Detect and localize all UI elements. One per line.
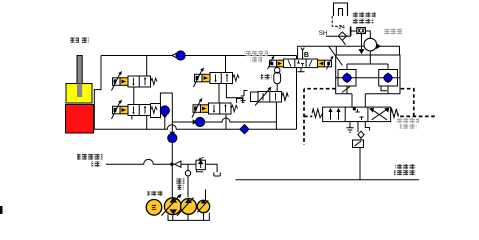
bold connector SH to dash (350, 27, 352, 37)
filter box on drain (360, 138, 362, 140)
BV centre blocked symbols (353, 108, 356, 111)
wire drain to line C (359, 148, 361, 181)
wire B port corner (297, 46, 299, 59)
label suction pipe (176, 178, 185, 183)
wire V3 col riser (225, 56, 227, 73)
pump P2 variable (177, 198, 196, 216)
manifold internal feed from motor (347, 55, 388, 70)
cylinder base red (66, 105, 94, 134)
wire V1 col riser (146, 56, 148, 77)
BV left square arrows (330, 110, 332, 120)
check block CB1 (338, 70, 356, 87)
wire brake release drop (361, 34, 363, 51)
manifold neck to big valve (352, 94, 365, 107)
BV right port L (365, 122, 369, 131)
node 1 blue on top wire (172, 51, 185, 60)
BV left spring (312, 109, 323, 118)
pump drain manifold (168, 213, 209, 221)
svg-text:SH: SH (319, 30, 328, 37)
wire pump3 stub (205, 190, 207, 201)
valve V3 proportional solenoid (194, 68, 240, 88)
V2 spring cage (151, 104, 161, 118)
BV right square cross arrows (372, 109, 388, 120)
dashed pilot left upper (304, 88, 336, 90)
wire RV center drain T (298, 68, 305, 72)
wire charge valve drop to line A (275, 102, 277, 129)
wire top supply (101, 55, 297, 57)
brake unit box XX (357, 28, 366, 34)
check valve diamond on SH line (338, 32, 346, 45)
pump P3 small (197, 200, 209, 213)
wire motor horizontal right and down to manifold (377, 46, 400, 55)
motor circle (364, 38, 377, 51)
cylinder piston rod (77, 56, 82, 98)
dashed pilot to brake (332, 16, 344, 26)
BV right spring (391, 109, 399, 118)
wire V3 drain L with tank (226, 84, 245, 103)
junction dot (170, 163, 173, 166)
node 4 blue on line A (193, 117, 205, 126)
B port arrow (301, 48, 304, 59)
wire line C bottom right (236, 179, 420, 181)
wire line A (172, 118, 276, 122)
wire V4 spring drain bracket (237, 99, 243, 104)
svg-text:B: B (304, 52, 309, 59)
wire brake unit feed (351, 31, 371, 38)
node 2 blue V2 drain (160, 106, 169, 118)
wire V2 bottom stub (131, 116, 133, 120)
valve BV main 3-position body (312, 107, 398, 122)
wire left frame jog (94, 56, 101, 130)
label rotary motor (gray) (383, 29, 402, 34)
label engine (148, 191, 164, 196)
check ball CB1 (342, 72, 353, 83)
wire V2 drain vertical node2 to line B (164, 115, 166, 129)
label tipping system line2 (92, 161, 102, 167)
flow arrow on suction line (175, 161, 181, 167)
wire line A left end up (160, 93, 172, 122)
charge valve left drain bracket (241, 91, 248, 97)
svg-text:-24: -24 (337, 25, 345, 31)
cylinder rod inside body (77, 84, 82, 98)
pump P1 bidirectional variable (162, 194, 182, 216)
label cylinder name (71, 37, 80, 42)
wire suction line with hop (106, 159, 196, 164)
valve V1 proportional solenoid (112, 71, 158, 91)
label proportional valve right (gray) (396, 118, 419, 123)
wire right vertical from top wire to line B (296, 56, 298, 130)
wire V3 to V4 stub (218, 84, 220, 104)
wire diagonal into manifold (329, 46, 343, 65)
check block CB2 (379, 70, 398, 87)
label rotary pilot valve (gray) (244, 51, 268, 56)
BV tank below (346, 122, 354, 133)
wire V2 below to line B (146, 116, 148, 130)
wire relief drain to tank (205, 164, 220, 176)
wire V1 to V2 stub (133, 87, 135, 105)
check ball CB2 (383, 72, 394, 83)
label brake unit line2 (352, 19, 374, 24)
relief pilot bracket below (197, 170, 204, 172)
wire SH pilot line (326, 35, 351, 37)
brake caliper symbol (334, 3, 348, 16)
node 3 blue on pump riser (168, 132, 177, 143)
dashed pilot left vertical (303, 89, 305, 145)
wire V4 below to line B (225, 114, 227, 129)
manifold block outline (336, 55, 400, 94)
label accumulator (261, 74, 272, 79)
valve CV accumulator charge (251, 87, 289, 106)
wire motor bottom to manifold (369, 51, 371, 55)
manifold cross line (336, 77, 400, 79)
valve V2 proportional solenoid (112, 100, 158, 120)
accumulator (274, 68, 281, 92)
wire motor horizontal left (298, 46, 364, 55)
label brake unit line1 (352, 12, 376, 17)
BV check valve below (358, 122, 364, 138)
scan artifact mark (0, 206, 3, 214)
dashed pilot left to spring (304, 115, 312, 117)
cylinder body yellow (66, 84, 92, 104)
gauge circle line to pump2 (187, 164, 189, 197)
valve RV rotary pilot 3-position (268, 56, 334, 70)
dashed pilot right (400, 89, 437, 117)
label axle hydraulic system (395, 164, 416, 169)
engine circle (146, 200, 162, 216)
wire main pump riser x172.3 (171, 122, 173, 198)
check block stubs (342, 86, 388, 94)
wire line B lower supply with hop (94, 125, 297, 130)
valve V4 proportional solenoid (192, 98, 238, 118)
node 5 blue diamond on line B (240, 125, 249, 134)
label tipping system line1 (77, 154, 103, 160)
relief valve box (196, 160, 205, 169)
